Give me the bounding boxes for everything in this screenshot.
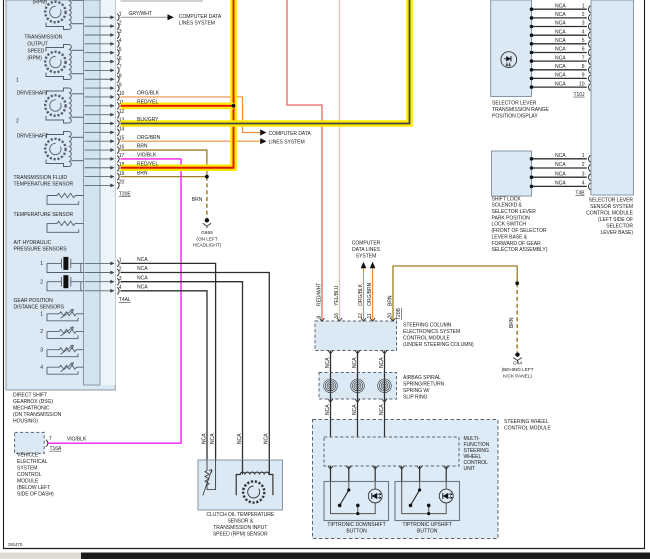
svg-text:1: 1 bbox=[119, 12, 122, 18]
wire BLK/GRY pin 13 across to top right bbox=[121, 0, 410, 124]
svg-text:ELECTRICAL: ELECTRICAL bbox=[17, 459, 48, 465]
svg-text:TIPTRONIC DOWNSHIFT: TIPTRONIC DOWNSHIFT bbox=[327, 522, 385, 528]
svg-text:LOCK SWITCH: LOCK SWITCH bbox=[492, 222, 527, 228]
wire NCA steering column module to airbag spiral 1 bbox=[330, 351, 332, 373]
module: selector lever sensor system control module bbox=[591, 0, 634, 195]
wire NCA T10J pin 7 bbox=[532, 60, 587, 62]
sensor: transmission output speed (RPM) bbox=[45, 45, 83, 80]
svg-text:NCA: NCA bbox=[555, 171, 566, 177]
svg-text:GEARBOX (DSG): GEARBOX (DSG) bbox=[13, 399, 53, 405]
svg-text:COMPUTER: COMPUTER bbox=[352, 241, 381, 247]
svg-text:SELECTOR: SELECTOR bbox=[606, 223, 633, 229]
label transmission fluid temperature sensor bbox=[14, 175, 74, 188]
wire NCA T4AL pin 2 bbox=[121, 273, 270, 461]
svg-text:19: 19 bbox=[119, 171, 125, 177]
svg-text:HEADLIGHT): HEADLIGHT) bbox=[193, 243, 222, 249]
svg-text:3: 3 bbox=[119, 29, 122, 35]
wire NCA T10J pin 9 bbox=[532, 77, 587, 79]
svg-text:ORG/BRN: ORG/BRN bbox=[367, 282, 373, 306]
svg-text:(BELOW LEFT: (BELOW LEFT bbox=[17, 485, 50, 491]
wire BRN pin 16 bbox=[121, 150, 207, 177]
svg-text:4: 4 bbox=[119, 285, 122, 291]
wire NCA airbag spiral to steering wheel module 3 bbox=[384, 399, 386, 420]
svg-text:LINES SYSTEM: LINES SYSTEM bbox=[269, 140, 305, 146]
svg-text:NCA: NCA bbox=[352, 404, 358, 415]
svg-text:LEVER BASE &: LEVER BASE & bbox=[492, 234, 528, 240]
sensor: input RPM speed sensor (top, cut off) bbox=[45, 0, 83, 30]
svg-text:4: 4 bbox=[119, 38, 122, 44]
label shift lock solenoid bbox=[492, 196, 548, 253]
T10J sockets bbox=[588, 6, 590, 91]
svg-text:NCA: NCA bbox=[555, 55, 566, 61]
rotated pin numbers at T20B bbox=[316, 313, 393, 319]
svg-text:OUTPUT: OUTPUT bbox=[27, 42, 47, 48]
sensor: gear position distance sensor 3 bbox=[47, 345, 84, 357]
svg-text:6: 6 bbox=[119, 56, 122, 62]
svg-text:T20B: T20B bbox=[396, 307, 402, 320]
svg-text:NCA: NCA bbox=[201, 433, 207, 444]
module: steering wheel control module (large dashed) bbox=[313, 420, 499, 539]
wire ORG/BLK from computer data lines to pin 12 bbox=[361, 262, 367, 321]
T4AL pin numbers bbox=[119, 258, 122, 291]
sensor: gear position distance sensor 2 bbox=[47, 327, 84, 339]
label selector lever transmission range position display bbox=[492, 101, 550, 120]
wire NCA T4AL pin 1 bbox=[121, 263, 216, 460]
sensor: transmission fluid temperature sensor (resistor) bbox=[47, 193, 84, 204]
svg-text:8: 8 bbox=[582, 64, 585, 70]
junction RED/YEL pins 11/18 bbox=[232, 104, 236, 108]
downshift switch bbox=[338, 488, 360, 515]
svg-text:TIPTRONIC UPSHIFT: TIPTRONIC UPSHIFT bbox=[403, 522, 452, 528]
svg-text:MODULE: MODULE bbox=[17, 479, 39, 485]
transmission input speed sensor (coil + tone wheel) bbox=[236, 460, 273, 503]
svg-text:MECHATRONIC: MECHATRONIC bbox=[13, 406, 50, 412]
svg-text:10: 10 bbox=[579, 81, 585, 87]
label multi-function steering wheel control unit bbox=[464, 436, 490, 472]
svg-text:DATA LINES: DATA LINES bbox=[352, 247, 381, 253]
svg-text:2: 2 bbox=[119, 20, 122, 26]
svg-text:3: 3 bbox=[119, 276, 122, 282]
label driveshaft 1 bbox=[16, 78, 48, 97]
svg-text:ORG/BRN: ORG/BRN bbox=[137, 135, 161, 141]
svg-text:4: 4 bbox=[582, 181, 585, 187]
wire BRN pin 19 bbox=[121, 176, 207, 178]
module: selector lever transmission range position display bbox=[491, 0, 532, 97]
wire multifunction to upshift button 1 bbox=[401, 466, 403, 482]
svg-text:VIO/BLK: VIO/BLK bbox=[137, 153, 157, 159]
svg-text:3: 3 bbox=[582, 171, 585, 177]
svg-text:POSITION DISPLAY: POSITION DISPLAY bbox=[492, 114, 538, 120]
svg-text:2: 2 bbox=[40, 279, 43, 285]
ground G44 bbox=[502, 352, 534, 379]
module: DIRECT SHIFT GEARBOX (DSG) MECHATRONIC outer box bbox=[6, 0, 115, 390]
svg-text:A/T HYDRAULIC: A/T HYDRAULIC bbox=[14, 240, 52, 246]
svg-text:NCA: NCA bbox=[325, 404, 331, 415]
svg-text:291470: 291470 bbox=[8, 542, 23, 547]
svg-text:KICK PANEL): KICK PANEL) bbox=[503, 373, 532, 379]
wire NCA T10J pin 2 bbox=[532, 17, 587, 19]
cropped diagram remnants at top edge bbox=[63, 0, 204, 3]
svg-text:(RPM): (RPM) bbox=[33, 0, 48, 6]
svg-text:4: 4 bbox=[582, 29, 585, 35]
wire ORG/BRN pin 15 to computer data lines bbox=[121, 135, 267, 144]
svg-text:SENSOR &: SENSOR & bbox=[227, 519, 253, 525]
svg-text:NCA: NCA bbox=[325, 357, 331, 368]
svg-text:TRANSMISSION FLUID: TRANSMISSION FLUID bbox=[14, 175, 68, 181]
svg-text:(ON LEFT: (ON LEFT bbox=[196, 236, 217, 242]
label steering wheel control module bbox=[504, 419, 551, 432]
wire RED/YEL pin 11 bbox=[121, 103, 234, 110]
svg-text:SELECTOR LEVER: SELECTOR LEVER bbox=[492, 101, 537, 107]
sensor: gear position distance sensor 4 bbox=[47, 363, 84, 375]
rotated wire labels at T20B bbox=[316, 282, 393, 306]
T4B sockets bbox=[588, 155, 590, 190]
svg-text:NCA: NCA bbox=[137, 275, 148, 281]
label vehicle electrical system control module bbox=[17, 453, 54, 498]
T20E pin numbers bbox=[119, 12, 125, 186]
svg-text:SLIP RING: SLIP RING bbox=[403, 395, 428, 401]
svg-text:NCA: NCA bbox=[210, 433, 216, 444]
svg-text:YEL/BLU: YEL/BLU bbox=[334, 285, 340, 306]
svg-text:NCA: NCA bbox=[555, 12, 566, 18]
rotated NCA labels (lower) bbox=[325, 404, 385, 415]
junction BRN pins 16/19 bbox=[205, 175, 209, 179]
wire multifunction to downshift button 3 bbox=[374, 466, 376, 482]
wire multifunction to upshift button 2 bbox=[419, 466, 421, 482]
svg-text:G44: G44 bbox=[513, 361, 522, 367]
svg-text:SELECTOR LEVER: SELECTOR LEVER bbox=[589, 197, 634, 203]
svg-text:4: 4 bbox=[40, 365, 43, 371]
svg-text:AIRBAG SPIRAL: AIRBAG SPIRAL bbox=[403, 375, 441, 381]
wire multifunction to upshift button 3 bbox=[445, 466, 447, 482]
svg-text:(RPM): (RPM) bbox=[27, 56, 42, 62]
svg-text:1: 1 bbox=[16, 78, 19, 84]
svg-text:16: 16 bbox=[119, 144, 125, 150]
svg-text:NCA: NCA bbox=[555, 29, 566, 35]
label airbag spiral spring bbox=[403, 375, 445, 401]
svg-text:VEHICLE: VEHICLE bbox=[17, 453, 39, 459]
upshift internal circuit bbox=[402, 482, 447, 514]
svg-text:UNIT: UNIT bbox=[464, 466, 476, 472]
sensor: driveshaft 2 speed bbox=[45, 132, 83, 167]
svg-text:T20E: T20E bbox=[119, 191, 132, 197]
svg-text:9: 9 bbox=[316, 316, 322, 319]
svg-text:20: 20 bbox=[119, 180, 125, 186]
svg-text:DRIVESHAFT: DRIVESHAFT bbox=[17, 91, 48, 97]
wire BRN pin 20 to ground G44 bbox=[393, 266, 517, 321]
thermistor (clutch oil temperature sensor) bbox=[203, 460, 216, 496]
svg-text:LEVER BASE): LEVER BASE) bbox=[600, 230, 633, 236]
svg-text:NCA: NCA bbox=[555, 64, 566, 70]
svg-text:9: 9 bbox=[582, 73, 585, 79]
wire into multifunction unit 1 bbox=[330, 420, 332, 438]
DSG internal connector strip bbox=[84, 0, 101, 385]
DSG pin margin zone bbox=[100, 0, 115, 385]
svg-text:SPEED: SPEED bbox=[27, 49, 44, 55]
T4B NCA labels and pin numbers bbox=[555, 153, 585, 187]
svg-text:SYSTEM: SYSTEM bbox=[356, 254, 376, 260]
svg-text:NCA: NCA bbox=[555, 38, 566, 44]
svg-text:15: 15 bbox=[119, 135, 125, 141]
junction dots at display box bbox=[530, 7, 534, 88]
wire NCA T4AL pin 4 bbox=[121, 291, 208, 460]
svg-text:LINES SYSTEM: LINES SYSTEM bbox=[179, 21, 215, 27]
junction dots at shift lock box bbox=[530, 157, 534, 188]
taskbar light segment bbox=[0, 553, 81, 559]
label A/T hydraulic pressure sensors bbox=[14, 240, 68, 253]
junction BRN bbox=[515, 281, 519, 285]
label computer data lines system (above pins 12/11) bbox=[352, 241, 381, 260]
svg-text:(FRONT OF SELECTOR: (FRONT OF SELECTOR bbox=[492, 228, 547, 234]
svg-text:PRESSURE SENSORS: PRESSURE SENSORS bbox=[14, 247, 68, 253]
wire NCA T10J pin 10 bbox=[532, 86, 587, 88]
sensor: gear position distance sensor 1 bbox=[47, 309, 84, 321]
wire NCA T4B pin 3 bbox=[532, 176, 587, 178]
sensor: A/T hydraulic pressure sensor 1 bbox=[47, 259, 84, 273]
spiral spring symbol 2 bbox=[351, 373, 365, 400]
svg-text:NCA: NCA bbox=[137, 257, 148, 263]
label clutch oil temperature sensor bbox=[206, 512, 274, 538]
svg-text:BRN: BRN bbox=[137, 144, 148, 150]
svg-text:CLUTCH OIL TEMPERATURE: CLUTCH OIL TEMPERATURE bbox=[206, 512, 274, 518]
svg-text:DIRECT SHIFT: DIRECT SHIFT bbox=[13, 393, 47, 399]
module: clutch oil temperature sensor & transmission input speed sensor bbox=[198, 460, 283, 510]
svg-text:(BEHIND LEFT: (BEHIND LEFT bbox=[502, 367, 534, 373]
svg-text:BLK/GRY: BLK/GRY bbox=[137, 117, 159, 123]
wire ORG/BLK pin 10 to computer data lines bbox=[121, 91, 267, 136]
label steering column electronics system control module bbox=[403, 323, 474, 349]
svg-text:NCA: NCA bbox=[555, 181, 566, 187]
wire VIO/BLK pin 17 to T16A bbox=[48, 159, 182, 443]
svg-text:PARK POSITION: PARK POSITION bbox=[492, 215, 531, 221]
T16A pin 7 socket bbox=[46, 440, 48, 447]
T10J NCA labels and pin numbers bbox=[555, 3, 585, 87]
svg-text:T10J: T10J bbox=[573, 92, 585, 98]
svg-text:DISTANCE SENSORS: DISTANCE SENSORS bbox=[14, 305, 65, 311]
svg-text:BUTTON: BUTTON bbox=[417, 529, 438, 535]
svg-text:BRN: BRN bbox=[387, 295, 393, 306]
svg-text:SPEED (RPM) SENSOR: SPEED (RPM) SENSOR bbox=[213, 532, 268, 538]
page frame right border bbox=[644, 0, 646, 549]
module: vehicle electrical system control module (dashed) bbox=[15, 432, 45, 453]
svg-text:CONTROL MODULE: CONTROL MODULE bbox=[586, 210, 633, 216]
label gear position distance sensors bbox=[14, 298, 65, 311]
svg-text:10: 10 bbox=[119, 91, 125, 97]
svg-text:DRIVESHAFT: DRIVESHAFT bbox=[17, 134, 48, 140]
svg-text:RED/YEL: RED/YEL bbox=[137, 100, 158, 106]
svg-text:GEAR POSITION: GEAR POSITION bbox=[14, 298, 54, 304]
T4AL strip arrows pins 1-4 bbox=[85, 262, 115, 293]
svg-text:BRN: BRN bbox=[137, 170, 148, 176]
svg-text:9: 9 bbox=[119, 82, 122, 88]
svg-text:16: 16 bbox=[334, 313, 340, 319]
svg-text:ELECTRONICS SYSTEM: ELECTRONICS SYSTEM bbox=[403, 329, 460, 335]
svg-text:8: 8 bbox=[119, 73, 122, 79]
wire NCA steering column module to airbag spiral 3 bbox=[384, 351, 386, 373]
svg-text:TEMPERATURE SENSOR: TEMPERATURE SENSOR bbox=[14, 182, 74, 188]
svg-text:6: 6 bbox=[582, 47, 585, 53]
wire BRN dashed to G44 bbox=[516, 283, 518, 352]
svg-text:12: 12 bbox=[119, 109, 125, 115]
module: steering column electronics system control module (dashed) bbox=[315, 321, 397, 351]
svg-text:HOUSING): HOUSING) bbox=[13, 419, 38, 425]
wire NCA airbag spiral to steering wheel module 1 bbox=[330, 399, 332, 420]
spiral spring symbol 1 bbox=[324, 373, 338, 400]
svg-text:1: 1 bbox=[40, 261, 43, 267]
svg-text:1: 1 bbox=[582, 153, 585, 159]
svg-text:NCA: NCA bbox=[555, 162, 566, 168]
T20E strip arrows pins 1-20 bbox=[85, 15, 115, 187]
wire YEL/BLU from top to steering column module bbox=[339, 0, 341, 321]
rotated NCA labels above clutch sensor box bbox=[201, 433, 269, 444]
svg-text:FORWARD OF GEAR: FORWARD OF GEAR bbox=[492, 241, 542, 247]
svg-text:CONTROL MODULE: CONTROL MODULE bbox=[504, 425, 551, 431]
wire GRY/WHT pin 1 to computer data lines bbox=[121, 11, 222, 27]
svg-text:5: 5 bbox=[582, 38, 585, 44]
wire into multifunction unit 2 bbox=[357, 420, 359, 438]
svg-text:TRANSMISSION INPUT: TRANSMISSION INPUT bbox=[213, 525, 267, 531]
svg-text:SPRING W/: SPRING W/ bbox=[403, 388, 430, 394]
wire NCA T10J pin 6 bbox=[532, 52, 587, 54]
upshift switch bbox=[409, 488, 431, 515]
page frame bottom border bbox=[3, 548, 645, 550]
svg-text:11: 11 bbox=[367, 313, 373, 318]
svg-text:SELECTOR LEVER: SELECTOR LEVER bbox=[492, 209, 537, 215]
module: multi-function steering wheel control unit (dashed) bbox=[324, 437, 459, 466]
svg-text:SPRING/RETURN: SPRING/RETURN bbox=[403, 382, 445, 388]
DSG label text bbox=[13, 393, 62, 425]
module: tiptronic downshift button bbox=[324, 482, 389, 521]
downshift LED bbox=[368, 489, 382, 503]
svg-text:CONTROL: CONTROL bbox=[17, 472, 42, 478]
spiral spring symbol 3 bbox=[378, 373, 392, 400]
wire ORG/BRN from computer data lines to pin 11 bbox=[370, 262, 376, 321]
svg-text:NCA: NCA bbox=[555, 73, 566, 79]
svg-text:NCA: NCA bbox=[555, 47, 566, 53]
svg-text:G655: G655 bbox=[201, 230, 213, 236]
svg-text:(LEFT SIDE OF: (LEFT SIDE OF bbox=[598, 217, 633, 223]
svg-text:NCA: NCA bbox=[555, 3, 566, 9]
svg-text:COMPUTER DATA: COMPUTER DATA bbox=[179, 14, 222, 20]
rotated NCA labels (upper) bbox=[325, 357, 385, 368]
svg-text:1: 1 bbox=[40, 312, 43, 318]
svg-text:14: 14 bbox=[119, 127, 125, 133]
svg-text:T16A: T16A bbox=[50, 446, 63, 452]
label tiptronic downshift button bbox=[327, 522, 385, 535]
svg-text:(ON TRANSMISSION: (ON TRANSMISSION bbox=[13, 412, 62, 418]
module: shift lock solenoid & selector lever park position lock switch bbox=[492, 151, 532, 196]
wire into multifunction unit 3 bbox=[384, 420, 386, 438]
svg-text:CONTROL MODULE: CONTROL MODULE bbox=[403, 336, 450, 342]
label driveshaft 2 bbox=[16, 119, 48, 140]
module: airbag spiral spring / return spring w/ slip ring (dashed) bbox=[319, 373, 397, 400]
ground G655 bbox=[193, 218, 222, 249]
svg-text:T4B: T4B bbox=[575, 190, 585, 196]
svg-text:T4AL: T4AL bbox=[119, 297, 131, 303]
downshift internal circuit bbox=[331, 482, 376, 514]
wire NCA T10J pin 4 bbox=[532, 34, 587, 36]
svg-text:3: 3 bbox=[582, 21, 585, 27]
svg-text:ORG/BLK: ORG/BLK bbox=[137, 91, 160, 97]
svg-text:NCA: NCA bbox=[379, 404, 385, 415]
taskbar dark segment bbox=[81, 553, 650, 559]
sensor: A/T hydraulic pressure sensor 2 bbox=[47, 277, 84, 291]
svg-text:STEERING WHEEL: STEERING WHEEL bbox=[504, 419, 549, 425]
svg-text:SYSTEM: SYSTEM bbox=[17, 466, 37, 472]
svg-text:(UNDER STEERING COLUMN): (UNDER STEERING COLUMN) bbox=[403, 342, 474, 348]
svg-text:2: 2 bbox=[16, 119, 19, 125]
svg-text:ORG/BLK: ORG/BLK bbox=[358, 283, 364, 306]
svg-text:TRANSMISSION: TRANSMISSION bbox=[24, 35, 62, 41]
svg-text:7: 7 bbox=[49, 436, 52, 442]
label transmission output speed bbox=[24, 35, 62, 62]
label tiptronic upshift button bbox=[403, 522, 452, 535]
svg-text:SOLENOID &: SOLENOID & bbox=[492, 203, 523, 209]
wire NCA T10J pin 1 bbox=[532, 8, 587, 10]
wire BRN dashed to ground G655 bbox=[206, 177, 208, 219]
svg-text:STEERING COLUMN: STEERING COLUMN bbox=[403, 323, 452, 329]
svg-text:2: 2 bbox=[119, 267, 122, 273]
svg-text:2: 2 bbox=[582, 12, 585, 18]
svg-text:3: 3 bbox=[40, 347, 43, 353]
wire NCA airbag spiral to steering wheel module 2 bbox=[357, 399, 359, 420]
label selector lever sensor system control module bbox=[586, 197, 633, 236]
svg-text:NCA: NCA bbox=[555, 153, 566, 159]
module: tiptronic upshift button bbox=[395, 482, 460, 521]
label computer data lines system (mid-left) bbox=[269, 131, 312, 145]
wire RED/YEL pin 18 + vertical trunk bbox=[121, 0, 234, 168]
svg-text:20: 20 bbox=[387, 313, 393, 319]
svg-text:NCA: NCA bbox=[352, 357, 358, 368]
svg-text:NCA: NCA bbox=[237, 433, 243, 444]
svg-text:5: 5 bbox=[119, 47, 122, 53]
wire NCA T10J pin 5 bbox=[532, 43, 587, 45]
svg-text:RED/WHT: RED/WHT bbox=[316, 283, 322, 306]
svg-text:NCA: NCA bbox=[379, 357, 385, 368]
wire NCA T4B pin 4 bbox=[532, 185, 587, 187]
svg-text:SELECTOR ASSEMBLY): SELECTOR ASSEMBLY) bbox=[492, 247, 548, 253]
svg-text:SHIFT LOCK: SHIFT LOCK bbox=[492, 196, 522, 202]
wire multifunction to downshift button 2 bbox=[348, 466, 350, 482]
T20B pin entry flares bbox=[319, 318, 395, 321]
svg-text:SENSOR SYSTEM: SENSOR SYSTEM bbox=[590, 204, 633, 210]
svg-text:7: 7 bbox=[582, 55, 585, 61]
svg-text:COMPUTER DATA: COMPUTER DATA bbox=[269, 131, 312, 137]
wire NCA T4B pin 2 bbox=[532, 167, 587, 169]
display LED symbol bbox=[501, 52, 517, 68]
wire NCA steering column module to airbag spiral 2 bbox=[357, 351, 359, 373]
wire NCA T10J pin 8 bbox=[532, 69, 587, 71]
sensor: driveshaft 1 speed bbox=[45, 88, 83, 123]
svg-text:NCA: NCA bbox=[137, 266, 148, 272]
wire NCA T4B pin 1 bbox=[532, 158, 587, 160]
svg-text:BRN: BRN bbox=[192, 197, 203, 203]
wire RED/WHT from top to steering column module bbox=[287, 0, 322, 321]
svg-text:12: 12 bbox=[358, 313, 364, 319]
svg-text:BRN: BRN bbox=[509, 317, 515, 328]
upshift LED bbox=[439, 489, 453, 503]
wire NCA T4AL pin 3 bbox=[121, 282, 243, 460]
svg-text:1: 1 bbox=[582, 3, 585, 9]
svg-text:BUTTON: BUTTON bbox=[346, 529, 367, 535]
wire multifunction to downshift button 1 bbox=[330, 466, 332, 482]
svg-text:NCA: NCA bbox=[137, 285, 148, 291]
T20E connector sockets bbox=[117, 14, 119, 189]
svg-text:NCA: NCA bbox=[264, 433, 270, 444]
svg-text:TRANSMISSION RANGE: TRANSMISSION RANGE bbox=[492, 107, 550, 113]
svg-text:SIDE OF DASH): SIDE OF DASH) bbox=[17, 492, 54, 498]
svg-text:NCA: NCA bbox=[555, 21, 566, 27]
